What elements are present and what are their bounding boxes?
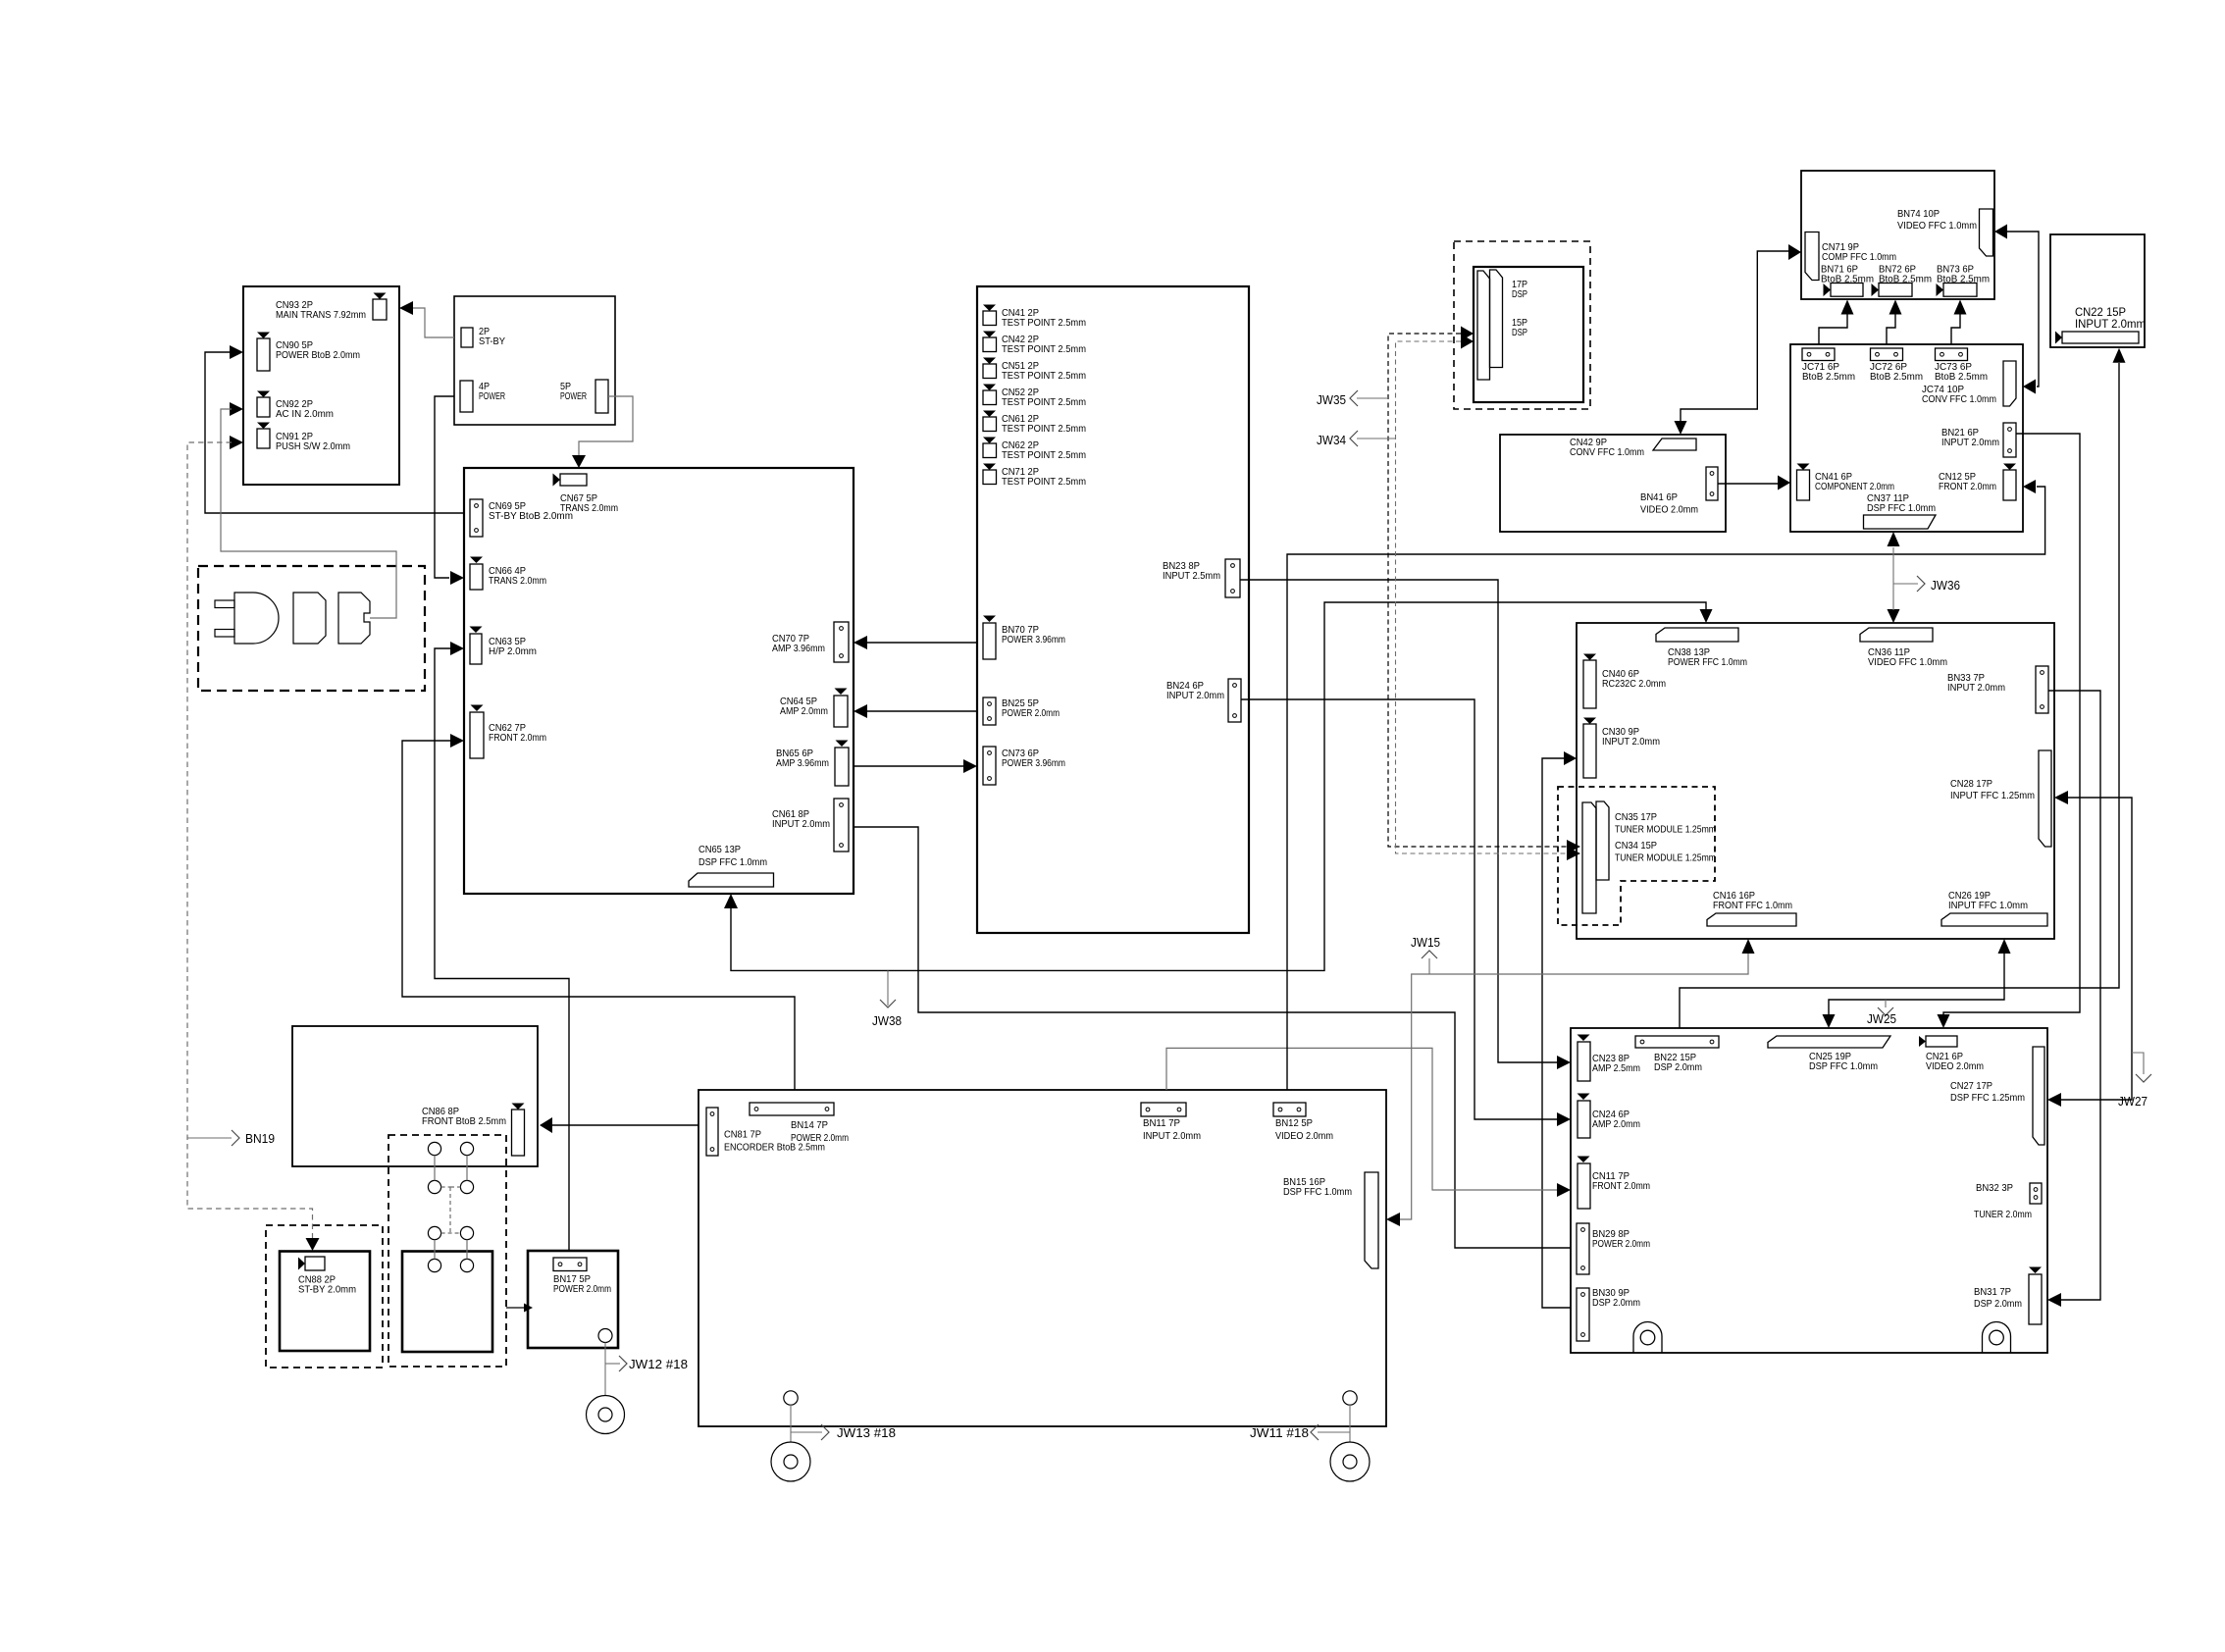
svg-text:AMP 2.0mm: AMP 2.0mm [1592, 1118, 1640, 1130]
connector CN35 17P TUNER MODULE [1582, 802, 1596, 913]
svg-text:MAIN TRANS 7.92mm: MAIN TRANS 7.92mm [276, 309, 366, 321]
svg-text:TEST POINT 2.5mm: TEST POINT 2.5mm [1002, 396, 1086, 408]
connector BN21 6P INPUT [2003, 423, 2016, 457]
svg-text:BtoB 2.5mm: BtoB 2.5mm [1935, 371, 1988, 383]
wire BN65 to CN73 [854, 765, 963, 767]
board: CN22 input box [2050, 234, 2145, 347]
svg-text:TUNER MODULE 1.25mm: TUNER MODULE 1.25mm [1615, 823, 1716, 835]
arrow into CN37 from below [1888, 532, 1900, 546]
svg-text:DSP FFC 1.0mm: DSP FFC 1.0mm [1809, 1060, 1878, 1072]
svg-text:INPUT 2.0mm: INPUT 2.0mm [772, 818, 830, 830]
svg-text:JW15: JW15 [1411, 935, 1440, 950]
connector CN37 11P DSP FFC [1864, 515, 1937, 529]
arrow into CN88 box from above [306, 1238, 320, 1251]
arrow into CN11 [1557, 1183, 1571, 1197]
wire CN65 to CN38 [724, 894, 738, 908]
svg-text:DSP 2.0mm: DSP 2.0mm [1974, 1298, 2022, 1310]
connector BN72 6P BtoB [1872, 284, 1880, 296]
svg-text:BN74 10P: BN74 10P [1897, 208, 1940, 220]
mounting hole tab right [1983, 1322, 2011, 1354]
connector CN71 9P COMP FFC [1805, 232, 1819, 281]
svg-text:TEST POINT 2.5mm: TEST POINT 2.5mm [1002, 343, 1086, 355]
board: front PCB (CN86) [292, 1026, 538, 1166]
speaker box [402, 1252, 492, 1353]
connector CN12 5P FRONT [2003, 464, 2016, 471]
arrow into CN41 wire from BN41 [1718, 483, 1778, 485]
connector BN29 8P POWER [1577, 1223, 1589, 1274]
connector BN17 5P POWER [553, 1258, 587, 1271]
svg-text:JW38: JW38 [872, 1013, 902, 1028]
wire CN37 to CN36 / JW36 [1892, 547, 1894, 610]
dashed wire CN91 to BN19/CN88 [230, 436, 243, 449]
svg-text:POWER 2.0mm: POWER 2.0mm [791, 1132, 849, 1144]
label JW34 [1357, 438, 1396, 439]
svg-text:POWER: POWER [479, 390, 505, 402]
wire CN86 to CN81 [552, 1124, 699, 1126]
svg-text:CONV FFC 1.0mm: CONV FFC 1.0mm [1570, 446, 1644, 458]
svg-text:PUSH S/W 2.0mm: PUSH S/W 2.0mm [276, 440, 350, 452]
svg-text:BtoB 2.5mm: BtoB 2.5mm [1937, 274, 1990, 285]
arrow into BN17 box [506, 1307, 524, 1309]
svg-text:FRONT 2.0mm: FRONT 2.0mm [489, 732, 546, 744]
connector CN42 9P CONV FFC [1653, 439, 1696, 450]
arrow into CN71 [1788, 244, 1801, 260]
connector BN12 5P VIDEO [1273, 1103, 1306, 1116]
connector BN33 7P INPUT [2036, 666, 2048, 713]
connector CN70 7P AMP [834, 622, 849, 662]
connector BN11 7P INPUT [1141, 1103, 1186, 1116]
svg-text:INPUT 2.0mm: INPUT 2.0mm [2075, 317, 2146, 331]
connector BN14 7P POWER [750, 1103, 834, 1115]
BN17 power box [528, 1251, 618, 1348]
connector 4P POWER [460, 381, 473, 412]
connector JC73 6P BtoB [1936, 348, 1968, 361]
svg-text:AMP 2.5mm: AMP 2.5mm [1592, 1062, 1640, 1074]
label JW11 #18 [1318, 1431, 1350, 1433]
arrow into CN36 from above [1888, 609, 1900, 623]
connector CN38 13P POWER FFC [1656, 628, 1738, 642]
svg-text:POWER FFC 1.0mm: POWER FFC 1.0mm [1668, 656, 1747, 668]
svg-text:INPUT 2.0mm: INPUT 2.0mm [1166, 690, 1224, 701]
arrow into CN24 [1557, 1112, 1571, 1126]
label JW35 [1357, 397, 1388, 399]
svg-text:FRONT 2.0mm: FRONT 2.0mm [1939, 481, 1996, 492]
svg-text:COMP FFC 1.0mm: COMP FFC 1.0mm [1822, 251, 1896, 263]
connector CN92 2P AC IN [257, 391, 270, 398]
connector CN21 6P VIDEO [1919, 1036, 1926, 1047]
svg-text:POWER 2.0mm: POWER 2.0mm [553, 1283, 611, 1295]
svg-text:JW35: JW35 [1317, 392, 1346, 407]
svg-text:BN14 7P: BN14 7P [791, 1119, 828, 1131]
connector CN16 16P FRONT FFC [1707, 913, 1796, 926]
board: POWER PCB (test points, BN70/BN25/CN73/BN23/BN24) [977, 286, 1249, 933]
connector 5P POWER [595, 380, 608, 413]
wire DSP PCB to CN22 [1680, 363, 2119, 1028]
board: AMP PCB (CN61-CN70) [464, 468, 854, 894]
connector BN71 6P BtoB [1824, 284, 1832, 296]
connector BN22 15P DSP [1635, 1036, 1719, 1048]
connector BN15 16P DSP FFC [1365, 1172, 1378, 1268]
arrow into CN30 [1564, 751, 1577, 765]
wire BN70 to CN70 [854, 636, 867, 649]
svg-text:VIDEO FFC 1.0mm: VIDEO FFC 1.0mm [1868, 656, 1947, 668]
tuner module dashed enclosure [1558, 787, 1715, 925]
arrow into CN38 from above [1700, 609, 1713, 623]
arrow into BN15 [1386, 1213, 1400, 1226]
dashed wire 17P DSP to CN35 [1388, 334, 1567, 847]
connector CN24 6P AMP [1578, 1094, 1590, 1101]
connector CN88 2P ST-BY [298, 1258, 305, 1270]
arrow into 17P DSP [1461, 327, 1474, 341]
arrow into JC74 [2023, 380, 2036, 394]
svg-text:JW11 #18: JW11 #18 [1250, 1425, 1309, 1440]
svg-text:ST-BY: ST-BY [479, 336, 505, 347]
arrow into BN31 [2047, 1293, 2061, 1307]
board: video box (CN71/BN74/BN71-73) [1801, 171, 1994, 299]
connector CN40 6P RC232C [1583, 654, 1596, 661]
svg-text:BN32 3P: BN32 3P [1976, 1182, 2013, 1194]
connector CN23 8P AMP [1578, 1035, 1590, 1042]
connector BN65 6P AMP [836, 741, 849, 748]
connector BN74 10P VIDEO FFC [1980, 209, 1993, 256]
arrow into 15P DSP [1461, 335, 1474, 349]
svg-text:TRANS 2.0mm: TRANS 2.0mm [489, 575, 546, 587]
svg-text:BN12 5P: BN12 5P [1275, 1117, 1313, 1129]
svg-text:CN65 13P: CN65 13P [699, 844, 741, 855]
svg-text:TEST POINT 2.5mm: TEST POINT 2.5mm [1002, 423, 1086, 435]
wire CN62 to bottom main PCB [450, 734, 464, 748]
arrow into CN25 from above [1823, 1014, 1836, 1028]
svg-text:ST-BY BtoB 2.0mm: ST-BY BtoB 2.0mm [489, 510, 573, 522]
svg-text:DSP: DSP [1512, 288, 1527, 300]
board: power supply PCB (CN90-CN93) [243, 286, 399, 485]
svg-text:CN35 17P: CN35 17P [1615, 811, 1657, 823]
svg-text:INPUT FFC 1.25mm: INPUT FFC 1.25mm [1950, 790, 2035, 801]
svg-text:INPUT 2.0mm: INPUT 2.0mm [1143, 1130, 1201, 1142]
mounting hole JW11 [1343, 1391, 1357, 1405]
svg-text:VIDEO FFC 1.0mm: VIDEO FFC 1.0mm [1897, 220, 1977, 232]
wire CN26 to CN25 [1829, 954, 2004, 1015]
svg-text:INPUT 2.0mm: INPUT 2.0mm [1941, 437, 1999, 448]
wire CN16 to BN15 and CN11 net [1400, 954, 1748, 1219]
mounting hole JW12 [598, 1329, 612, 1343]
connector CN27 17P DSP FFC [2033, 1047, 2044, 1145]
wire CN28 to CN27 [2061, 798, 2132, 1100]
arrow into CN16 from below [1742, 939, 1755, 954]
arrow into CN86 [540, 1117, 552, 1133]
CN88 dashed enclosure [266, 1225, 383, 1368]
wire JC71 to BN71 [1819, 314, 1847, 344]
arrow into CN28 [2054, 791, 2068, 804]
wire BN24 to CN24 [1241, 699, 1557, 1119]
arrow into CN42 from above [1675, 421, 1687, 435]
svg-text:TEST POINT 2.5mm: TEST POINT 2.5mm [1002, 449, 1086, 461]
connector CN11 7P FRONT [1578, 1157, 1590, 1163]
svg-text:POWER 3.96mm: POWER 3.96mm [1002, 757, 1065, 769]
svg-text:DSP FFC 1.25mm: DSP FFC 1.25mm [1950, 1092, 2025, 1104]
svg-text:JW12 #18: JW12 #18 [629, 1357, 688, 1371]
svg-text:JW13 #18: JW13 #18 [837, 1425, 896, 1440]
svg-text:TUNER MODULE 1.25mm: TUNER MODULE 1.25mm [1615, 852, 1716, 863]
svg-text:DSP 2.0mm: DSP 2.0mm [1592, 1297, 1640, 1309]
connector CN81 7P ENCORDER BtoB [706, 1108, 718, 1156]
svg-text:DSP FFC 1.0mm: DSP FFC 1.0mm [1283, 1186, 1352, 1198]
wire CN42 to CN71 [1681, 251, 1788, 422]
label JW36 [1893, 583, 1918, 585]
DSP module board [1474, 267, 1583, 402]
svg-text:CONV FFC 1.0mm: CONV FFC 1.0mm [1922, 393, 1996, 405]
connector CN25 19P DSP FFC [1768, 1036, 1890, 1048]
connector 15P DSP [1490, 270, 1503, 368]
svg-text:AMP 3.96mm: AMP 3.96mm [776, 757, 829, 769]
svg-text:COMPONENT 2.0mm: COMPONENT 2.0mm [1815, 481, 1894, 492]
svg-text:CN34 15P: CN34 15P [1615, 840, 1657, 852]
connector BN23 8P INPUT [1225, 559, 1240, 597]
connector CN91 2P PUSH S/W [257, 423, 270, 430]
svg-text:FRONT 2.0mm: FRONT 2.0mm [1592, 1180, 1650, 1192]
wire 5P POWER to CN67 [579, 396, 633, 455]
connector BN30 9P DSP [1577, 1288, 1589, 1341]
mounting hole JW13 [784, 1391, 798, 1405]
connector CN30 9P INPUT [1583, 718, 1596, 725]
speaker wires [434, 1156, 436, 1181]
svg-text:AMP 2.0mm: AMP 2.0mm [780, 705, 828, 717]
wire JC73 to BN73 [1951, 314, 1960, 344]
connector CN41 6P COMPONENT [1797, 464, 1810, 471]
svg-text:JW36: JW36 [1931, 578, 1960, 593]
arrow into BN74 [1994, 225, 2007, 239]
connector CN66 4P TRANS [470, 557, 483, 564]
AC inline connector male [338, 593, 370, 644]
AC inline connector female [293, 593, 326, 644]
svg-text:RC232C 2.0mm: RC232C 2.0mm [1602, 678, 1666, 690]
connector CN28 17P INPUT FFC [2039, 750, 2051, 847]
label JW15 [1428, 958, 1430, 974]
CN88 box [280, 1252, 370, 1352]
connector CN22 15P INPUT [2055, 332, 2062, 344]
svg-text:ST-BY 2.0mm: ST-BY 2.0mm [298, 1284, 356, 1296]
svg-text:JW27: JW27 [2118, 1094, 2147, 1109]
wire BN74 to JC74 [2007, 232, 2039, 387]
connector CN61 8P INPUT [834, 799, 849, 852]
wire JC72 to BN72 [1887, 314, 1895, 344]
svg-text:INPUT FFC 1.0mm: INPUT FFC 1.0mm [1948, 900, 2028, 911]
connector BN25 5P POWER [983, 697, 996, 725]
board: stand-by power box (2P/4P/5P) [454, 296, 615, 425]
svg-text:DSP FFC 1.0mm: DSP FFC 1.0mm [699, 856, 767, 868]
svg-text:FRONT BtoB 2.5mm: FRONT BtoB 2.5mm [422, 1115, 506, 1127]
test point connector CN42 2P [983, 332, 996, 338]
speaker terminal circles [428, 1142, 440, 1155]
arrow into CN21 from above [1938, 1014, 1950, 1028]
svg-text:JW25: JW25 [1867, 1011, 1896, 1026]
grommet JW13 [771, 1442, 810, 1481]
grommet JW11 [1330, 1442, 1370, 1481]
wire BN21 to CN21 [1943, 434, 2080, 1015]
connector CN62 7P FRONT [471, 705, 484, 712]
wire BN25 to CN64 [854, 704, 867, 718]
connector BN24 6P INPUT [1228, 679, 1241, 722]
wire 4P POWER to CN66 [435, 396, 454, 578]
label JW12 #18 [605, 1363, 620, 1365]
connector CN65 13P DSP FFC [689, 873, 774, 887]
wire 2P ST-BY to CN93 [399, 301, 413, 315]
test point connector CN41 2P [983, 305, 996, 312]
svg-text:TEST POINT 2.5mm: TEST POINT 2.5mm [1002, 370, 1086, 382]
connector CN90 5P POWER BtoB [257, 333, 270, 339]
connector BN73 6P BtoB [1937, 284, 1944, 296]
wire CN30 to BN30 [1542, 758, 1571, 1308]
connector CN67 5P TRANS [553, 474, 561, 487]
svg-text:DSP 2.0mm: DSP 2.0mm [1654, 1061, 1702, 1073]
connector CN93 2P MAIN TRANS [374, 293, 387, 300]
wire BN23 to CN23 [1240, 580, 1557, 1062]
svg-text:TEST POINT 2.5mm: TEST POINT 2.5mm [1002, 317, 1086, 329]
connector CN73 6P POWER [983, 747, 996, 785]
arrow into CN35 [1567, 840, 1580, 853]
test point connector CN52 2P [983, 385, 996, 391]
label JW25 [1885, 1000, 1887, 1007]
connector CN63 5P H/P [470, 627, 483, 634]
svg-text:INPUT 2.5mm: INPUT 2.5mm [1163, 570, 1220, 582]
test point connector CN61 2P [983, 411, 996, 418]
svg-text:AC IN 2.0mm: AC IN 2.0mm [276, 408, 334, 420]
svg-text:BtoB 2.5mm: BtoB 2.5mm [1870, 371, 1923, 383]
wire CN69 to CN90 [230, 345, 243, 359]
svg-text:BtoB 2.5mm: BtoB 2.5mm [1879, 274, 1932, 285]
svg-text:AMP 3.96mm: AMP 3.96mm [772, 643, 825, 654]
wire CN61 to BN29 [854, 827, 1571, 1248]
svg-text:CN28 17P: CN28 17P [1950, 778, 1992, 790]
wire BN11 to CN11 [1166, 1048, 1557, 1190]
svg-text:FRONT FFC 1.0mm: FRONT FFC 1.0mm [1713, 900, 1792, 911]
svg-text:BN19: BN19 [245, 1131, 275, 1146]
wire BN12 to CN12 [1287, 487, 2045, 1090]
arrow into CN41 [1778, 476, 1790, 490]
svg-text:BN11 7P: BN11 7P [1143, 1117, 1180, 1129]
connector CN26 19P INPUT FFC [1941, 913, 2047, 926]
svg-text:POWER 3.96mm: POWER 3.96mm [1002, 634, 1065, 645]
wire BN33 to BN31 [2048, 691, 2100, 1300]
test point connector CN71 2P [983, 464, 996, 471]
connector BN32 3P TUNER [2030, 1183, 2042, 1204]
svg-text:BtoB 2.5mm: BtoB 2.5mm [1802, 371, 1855, 383]
svg-text:INPUT 2.0mm: INPUT 2.0mm [1602, 736, 1660, 748]
label JW38 [887, 970, 889, 1006]
connector CN36 11P VIDEO FFC [1860, 628, 1933, 642]
board: converter box (JC71-JC74/BN21/CN12/CN41/CN37) [1790, 344, 2023, 532]
connector JC72 6P BtoB [1871, 348, 1903, 361]
svg-text:BtoB 2.5mm: BtoB 2.5mm [1821, 274, 1874, 285]
svg-text:POWER BtoB 2.0mm: POWER BtoB 2.0mm [276, 349, 360, 361]
svg-text:DSP: DSP [1512, 327, 1527, 338]
svg-text:VIDEO 2.0mm: VIDEO 2.0mm [1926, 1060, 1984, 1072]
mounting hole tab left [1633, 1322, 1662, 1354]
test point connector CN51 2P [983, 358, 996, 365]
arrow into CN23 [1557, 1056, 1571, 1069]
label JW27 [2132, 1053, 2144, 1074]
svg-text:JW34: JW34 [1317, 433, 1346, 447]
board: main input PCB (CN36/CN38/CN40/CN30/CN28/CN16/CN26) [1577, 623, 2054, 939]
connector JC74 10P CONV FFC [2003, 361, 2016, 406]
connector BN31 7P DSP [2029, 1267, 2042, 1274]
board: DSP PCB bottom right (CN21-CN27/BN29-BN32) [1571, 1028, 2047, 1353]
grommet JW12 [587, 1396, 625, 1434]
dashed wire 15P DSP to CN34 [1396, 341, 1568, 853]
arrow into CN34 [1567, 847, 1580, 860]
AC inlet dashed enclosure [198, 566, 425, 691]
svg-text:CN27 17P: CN27 17P [1950, 1080, 1992, 1092]
connector BN70 7P POWER [983, 616, 996, 623]
svg-text:BN41 6P: BN41 6P [1640, 491, 1678, 503]
svg-text:H/P 2.0mm: H/P 2.0mm [489, 645, 537, 657]
board: CN42/BN41 box [1500, 435, 1726, 532]
svg-text:CN81 7P: CN81 7P [724, 1128, 761, 1140]
connector 17P DSP [1477, 271, 1490, 380]
test point connector CN62 2P [983, 438, 996, 444]
connector CN69 5P ST-BY BtoB [470, 499, 483, 537]
arrow into CN27 [2047, 1093, 2061, 1107]
svg-text:VIDEO 2.0mm: VIDEO 2.0mm [1640, 503, 1698, 515]
AC plug symbol [215, 600, 234, 608]
svg-text:TEST POINT 2.5mm: TEST POINT 2.5mm [1002, 476, 1086, 488]
svg-text:INPUT 2.0mm: INPUT 2.0mm [1947, 682, 2005, 694]
svg-text:BN31 7P: BN31 7P [1974, 1286, 2011, 1298]
svg-text:VIDEO 2.0mm: VIDEO 2.0mm [1275, 1130, 1333, 1142]
arrow into CN22 box from below [2113, 348, 2126, 363]
connector BN41 6P VIDEO [1706, 467, 1718, 500]
board: bottom main PCB (CN81/BN11-BN15) [699, 1090, 1386, 1426]
arrow into CN12 [2023, 480, 2036, 493]
svg-text:TUNER 2.0mm: TUNER 2.0mm [1974, 1209, 2032, 1220]
speaker dashed enclosure [388, 1135, 506, 1367]
wire H/P CN63 to BN17 box [450, 642, 464, 655]
wire AC plug to CN92 [230, 402, 243, 416]
label BN19 [187, 1137, 232, 1139]
connector JC71 6P BtoB [1802, 348, 1835, 361]
svg-text:POWER 2.0mm: POWER 2.0mm [1592, 1238, 1650, 1250]
svg-text:POWER: POWER [560, 390, 587, 402]
speaker dashed jumper [441, 1186, 450, 1188]
label JW13 #18 [791, 1431, 822, 1433]
svg-text:DSP FFC 1.0mm: DSP FFC 1.0mm [1867, 502, 1936, 514]
connector CN86 8P FRONT BtoB [512, 1104, 525, 1110]
connector CN64 5P AMP [835, 689, 848, 696]
svg-text:POWER 2.0mm: POWER 2.0mm [1002, 707, 1060, 719]
connector CN34 15P TUNER MODULE [1596, 801, 1609, 880]
connector 2P ST-BY [461, 328, 473, 347]
DSP module dashed enclosure [1454, 241, 1590, 409]
arrow into CN26 from below [1998, 939, 2011, 954]
